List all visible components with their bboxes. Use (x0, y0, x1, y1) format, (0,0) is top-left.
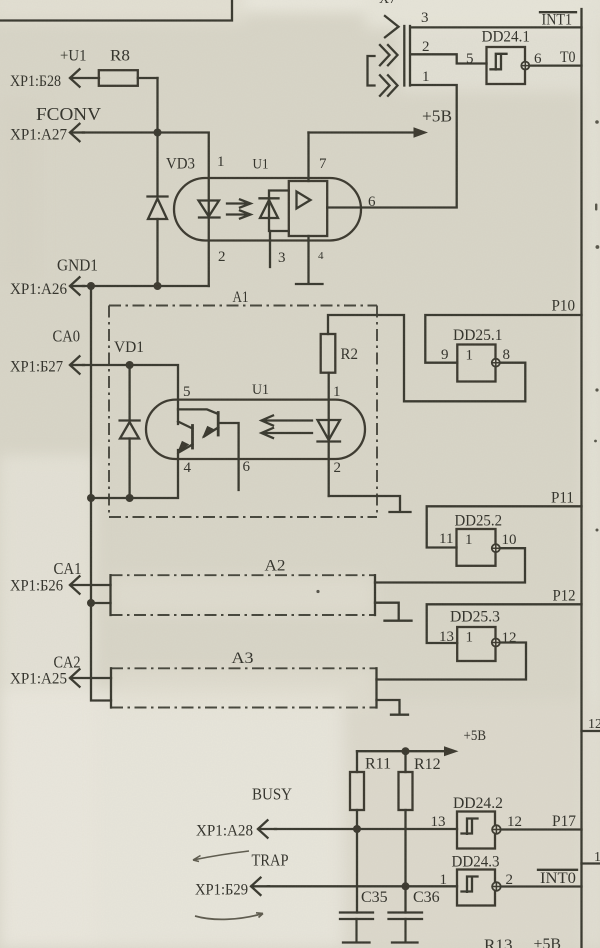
block A2 side edges (111, 575, 376, 615)
node left bus / A1 ground junction (87, 494, 95, 502)
node GND1/VD3 junction (154, 282, 162, 290)
connector arrow XP1:A25 (CA2) (70, 669, 80, 686)
connector arrow XP1:A26 (GND1) (70, 277, 80, 294)
connector arrow XP1:Б29 (TRAP) (251, 878, 261, 895)
pen mark near TRAP (193, 851, 249, 862)
photodiode inside U1 top (260, 191, 289, 232)
connector X7 bars (404, 26, 410, 86)
wire R8 to VD3 rail (138, 77, 158, 79)
+5B rail arrow (bottom) (357, 750, 446, 752)
wire BUSY to DD24.2 input (275, 828, 457, 830)
capacitor C35 (340, 913, 373, 942)
wire A2 out to frame ground (375, 603, 399, 620)
wire pin 6 to connector pin 1 (327, 85, 457, 208)
pin 3 stub (269, 231, 271, 267)
wire P11 to DD25.2 input (427, 506, 582, 547)
wire left bus to A2 lower input (91, 602, 111, 604)
wire left ground bus (91, 286, 111, 701)
wire A3 out to frame ground (377, 700, 400, 714)
LED inside (A1 opto) (318, 373, 341, 496)
block A1 dash-dot frame (109, 306, 377, 518)
node R12 top junction (402, 747, 410, 755)
resistor R2 (321, 334, 336, 373)
DD24.2 output bubble (492, 825, 501, 834)
wire DD25.3 output to A3 (377, 643, 527, 680)
block A3 dash-dot frame (111, 668, 377, 707)
wire connector pin 2 to DD24.1 input (411, 54, 487, 63)
connector arrow XP1:Б27 (CA0) (70, 356, 80, 373)
microcontroller bus line (580, 9, 582, 948)
wire pin 4 with ground (296, 236, 323, 284)
DD24.2 hysteresis glyph (462, 819, 478, 834)
frame ground bar (A3 exit) (391, 714, 408, 716)
partial box from previous sheet, top-left (0, 0, 232, 21)
speck in A2 (316, 590, 319, 593)
wire DD25.2 output to A2 (375, 548, 525, 582)
wire DD24.1 output to T0 (529, 64, 581, 66)
DD25.3 output bubble (492, 639, 500, 647)
node FCONV/VD3 junction (154, 129, 162, 137)
node BUSY/R11 junction (353, 825, 361, 833)
schmitt trigger DD24.2 (457, 812, 495, 849)
wire pin 7 to +5B rail (307, 133, 309, 182)
wire LED cathode to frame ground (329, 496, 400, 511)
connector arrow XP1:Б28 (70, 69, 80, 86)
node GND1/left bus junction (87, 282, 95, 290)
INT0 overline (538, 869, 577, 871)
bus pin stub upper (582, 730, 600, 732)
connector arrow XP1:A28 (BUSY) (258, 820, 268, 837)
wire GND1 (83, 285, 209, 287)
ground bar under C35 (343, 941, 370, 943)
wire CA0 to opto pin 5 (83, 365, 178, 424)
block A2 dash-dot frame (111, 575, 376, 615)
diode VD3 (148, 197, 168, 287)
phototransistor pair inside (178, 409, 239, 490)
wire P10 to DD25.1 input (425, 315, 581, 363)
light arrows left (262, 416, 313, 439)
connector contact chevrons pin 1 (380, 75, 398, 96)
capacitor C36 (389, 913, 423, 942)
ground bar under C36 (392, 941, 418, 943)
DD24.3 hysteresis glyph (462, 877, 478, 892)
logic gate DD25.1 (457, 345, 495, 382)
schmitt trigger DD24.1 (487, 47, 526, 84)
wire P12 to DD25.3 input (427, 604, 582, 643)
wire DD24.2 output to P17 (501, 828, 582, 830)
DD25.2 output bubble (492, 544, 500, 552)
+5B arrow (top) (309, 131, 417, 133)
resistor R12 (399, 751, 413, 912)
DD24.1 hysteresis glyph (491, 54, 507, 70)
DD24.1 output bubble (521, 62, 529, 70)
scan specks right of bus (594, 120, 599, 531)
wire R2 top to DD25.1 output loop (328, 315, 525, 401)
amplifier triangle (297, 192, 311, 209)
wire TRAP to DD24.3 input (268, 885, 457, 887)
optocoupler U1 body (in A1) (146, 400, 365, 459)
resistor R11 (350, 751, 364, 912)
optocoupler U1 body (top) (174, 178, 361, 241)
node VD1/ground wire junction (126, 494, 134, 502)
wire FCONV to opto pin 1 (83, 133, 209, 201)
frame ground bar (A1 exit) (390, 511, 411, 513)
amplifier box inside U1 top (289, 181, 327, 236)
node TRAP/R12 junction (402, 882, 410, 890)
wire A1 ground to opto pin 4 (91, 450, 178, 498)
wire DD24.3 output to INT0 (501, 885, 582, 887)
schmitt trigger DD24.3 (457, 870, 495, 906)
node left bus / A2 ground junction (87, 599, 95, 607)
logic gate DD25.3 (457, 627, 495, 661)
node CA0/VD1 junction (126, 361, 134, 369)
DD24.3 output bubble (492, 882, 501, 891)
diode VD1 (120, 365, 140, 498)
connector arrow XP1:A27 (FCONV) (70, 124, 80, 141)
connector arrow XP1:Б26 (CA1) (70, 576, 80, 593)
frame ground bar (A2 exit) (385, 620, 412, 622)
resistor R8 (99, 70, 138, 86)
LED inside U1 top (199, 201, 220, 287)
connector contact chevron pin 3 (385, 16, 399, 37)
logic gate DD25.2 (457, 529, 496, 566)
light arrows right (227, 200, 251, 219)
bus pin stub lower (582, 862, 600, 864)
twisted pair bracket (368, 56, 375, 86)
wire VD3 rail upper (156, 78, 158, 197)
pen swoosh under XP1:Б29 (195, 913, 263, 920)
connector contact chevrons pin 2 (380, 45, 398, 65)
block A3 side edges (111, 668, 377, 707)
INT1 overline (540, 11, 576, 13)
DD25.1 output bubble (492, 359, 500, 367)
wire connector pin 3 to INT1 (411, 26, 582, 28)
